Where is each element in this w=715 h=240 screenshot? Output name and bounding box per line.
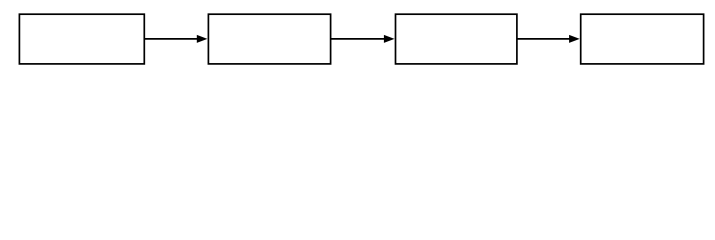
block box 3 — [396, 14, 517, 64]
block box 2 — [208, 14, 330, 64]
wire arrow 1 — [144, 35, 207, 43]
wire arrow 3 — [517, 35, 580, 43]
block box 4 — [581, 14, 704, 64]
block box 1 — [19, 14, 144, 64]
wire arrow 2 — [331, 35, 395, 43]
